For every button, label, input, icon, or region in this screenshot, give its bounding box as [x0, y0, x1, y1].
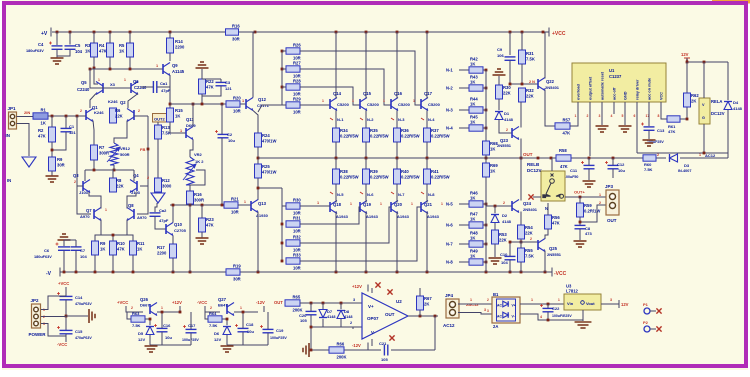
svg-text:2N5551: 2N5551: [497, 143, 512, 148]
junction bottom rail x=397: [396, 271, 399, 274]
junction bus R49: [485, 261, 488, 264]
junction bottom rail x=258: [257, 271, 260, 274]
wire R59 bottom: [579, 217, 581, 225]
capacitor C19: [260, 325, 274, 333]
svg-text:C18: C18: [246, 322, 254, 327]
resistor R25: [255, 164, 277, 178]
svg-text:47K: 47K: [206, 223, 214, 228]
resistor R56: [545, 215, 561, 229]
ground U1 pin3: [596, 126, 609, 132]
wire R3 top: [93, 32, 95, 43]
svg-text:V+: V+: [368, 304, 374, 309]
svg-text:R25: R25: [262, 164, 270, 169]
wire 12V rail: [687, 61, 728, 63]
svg-text:12V: 12V: [138, 337, 145, 342]
svg-text:Q9: Q9: [172, 63, 178, 68]
connector JP4: [446, 299, 459, 318]
wire R63 right: [145, 319, 150, 325]
wire D8 top: [340, 303, 342, 309]
wire opamp input line: [300, 302, 362, 304]
svg-text:VR2: VR2: [194, 152, 203, 157]
svg-text:R2: R2: [38, 128, 44, 133]
junction C17 top: [179, 311, 182, 314]
transistor Q20 (A1943): [391, 201, 398, 214]
junction OUT rail x=427: [426, 157, 429, 160]
wire source rail y=170: [85, 169, 134, 171]
bridge rectifier B1 body: [492, 297, 520, 323]
wire C16 bottom: [161, 332, 163, 345]
resistor R26: [286, 42, 301, 60]
transistor Q25 (2N5551): [538, 239, 545, 252]
wire C1 top: [65, 116, 67, 128]
wire R62 top: [686, 62, 688, 93]
wire D4 column top: [727, 62, 729, 100]
wire driver line y104: [170, 103, 226, 105]
resistor R60: [643, 155, 656, 161]
wire Ca1 left lead: [141, 86, 153, 88]
resistor R31b: [519, 50, 535, 64]
resistor R61: [667, 116, 680, 122]
svg-text:1K: 1K: [490, 169, 495, 174]
svg-text:R12: R12: [162, 178, 170, 183]
wire C5 to ground bus: [57, 50, 70, 57]
svg-text:R54: R54: [525, 225, 533, 230]
capacitor C20: [306, 311, 317, 314]
wire Q10 collector up: [172, 205, 174, 223]
wire AC line upper: [637, 152, 728, 154]
svg-text:1K: 1K: [41, 121, 46, 126]
svg-text:DC12V: DC12V: [711, 111, 725, 116]
svg-text:C12: C12: [617, 162, 625, 167]
junction top rail x=110: [109, 31, 112, 34]
svg-text:C11: C11: [570, 168, 578, 173]
svg-text:7.5K: 7.5K: [525, 254, 534, 259]
svg-text:2IN: 2IN: [24, 110, 30, 115]
svg-text:3: 3: [487, 309, 489, 313]
wire R47 row: [459, 224, 469, 226]
junction OUT rail x=613: [612, 157, 615, 160]
svg-text:Q2: Q2: [120, 100, 126, 105]
junction bottom rail x=64: [63, 271, 66, 274]
wire JP2 pin3: [41, 324, 66, 337]
wire R32b to Q23: [520, 102, 522, 128]
junction Q27 base/D6: [226, 318, 229, 321]
capacitor C1: [61, 128, 72, 131]
svg-text:Q16: Q16: [394, 91, 403, 96]
svg-text:1K: 1K: [175, 114, 180, 119]
svg-text:2200: 2200: [157, 251, 167, 256]
wire R4 to base rail: [109, 57, 111, 69]
resistor R5: [119, 43, 134, 57]
svg-text:1: 1: [470, 298, 472, 302]
resistor R12: [155, 178, 172, 192]
svg-text:1K: 1K: [490, 147, 495, 152]
wire JP2 pin2: [41, 316, 66, 318]
svg-text:+VCC: +VCC: [58, 281, 69, 286]
wire U1 pin3 to ground: [601, 114, 603, 125]
ground input triangle: [22, 157, 36, 167]
svg-text:OUT+: OUT+: [574, 190, 585, 195]
svg-text:2: 2: [587, 114, 589, 118]
port OUT2: [153, 114, 169, 123]
svg-text:-V: -V: [46, 271, 52, 277]
wire Q20 collector down: [396, 212, 398, 273]
capacitor C5: [65, 46, 76, 49]
IC U3 L7812 body: [564, 294, 601, 310]
wire R9b bottom: [94, 255, 96, 272]
svg-text:47K: 47K: [206, 85, 214, 90]
wire Q17 collector up: [426, 32, 428, 99]
svg-text:Ca2: Ca2: [159, 208, 167, 213]
svg-text:-VCC: -VCC: [554, 271, 567, 277]
svg-text:4148: 4148: [344, 315, 352, 319]
junction VR1/y170: [113, 169, 116, 172]
svg-text:JP3: JP3: [605, 184, 614, 189]
svg-text:100uF25V: 100uF25V: [270, 336, 287, 340]
svg-text:Q18: Q18: [333, 202, 342, 207]
wire R48 row: [459, 243, 469, 245]
svg-text:R41: R41: [431, 169, 439, 174]
svg-text:470uF63V: 470uF63V: [75, 302, 92, 306]
svg-text:R6: R6: [115, 108, 121, 113]
emitter mark N-3: [391, 118, 394, 120]
svg-text:AC: AC: [497, 304, 502, 308]
svg-text:1K: 1K: [470, 62, 475, 67]
svg-text:C2240: C2240: [77, 87, 90, 92]
wire C20 bottom: [310, 315, 312, 350]
resistor R4: [99, 43, 114, 57]
wire C22 bottom: [547, 312, 549, 320]
transistor Q15 (C5200): [360, 98, 367, 111]
wire OUT2 to column: [168, 117, 172, 119]
wire Q25 emitter down: [544, 251, 546, 273]
wire R59 top: [579, 197, 581, 203]
svg-text:+VCC: +VCC: [552, 31, 566, 37]
svg-text:OUT: OUT: [274, 300, 283, 305]
junction D7 tap: [322, 302, 325, 305]
svg-text:2: 2: [503, 201, 505, 205]
resistor R38: [333, 169, 359, 184]
wire Q4 top: [133, 170, 135, 181]
svg-text:Vin: Vin: [567, 301, 574, 306]
wire R67 bottom: [419, 310, 421, 316]
wire R64 right: [222, 319, 227, 325]
wire Q1 gate: [77, 115, 86, 117]
transistor Q16 (C5200): [391, 98, 398, 111]
wire Q24 base row: [486, 205, 512, 207]
wire R46 to bus: [483, 203, 486, 205]
wire C2 top: [221, 104, 223, 134]
svg-text:C22: C22: [552, 306, 560, 311]
wire Q20 emitter link: [396, 184, 398, 203]
wire Q7 emitter: [95, 220, 101, 242]
svg-text:10u: 10u: [165, 335, 172, 340]
svg-text:121: 121: [69, 130, 76, 135]
svg-text:12V: 12V: [621, 302, 629, 307]
diode D3 (IN-4007): [670, 154, 678, 162]
wire U1 pin5 stub: [624, 102, 626, 114]
svg-text:Q10: Q10: [174, 222, 183, 227]
wire Q11 emitter down: [190, 140, 193, 158]
wire RELA top: [703, 62, 705, 98]
wire R25/Q13 node to bottom bus: [258, 187, 282, 189]
wire Q26 out: [157, 311, 180, 313]
svg-text:1K: 1K: [470, 217, 475, 222]
svg-text:3: 3: [484, 308, 486, 312]
svg-text:C7: C7: [80, 248, 86, 253]
svg-text:180uF63V: 180uF63V: [34, 255, 52, 259]
svg-text:Q20: Q20: [394, 202, 403, 207]
junction bottom rail x=113: [112, 271, 115, 274]
transistor Q27 (B647): [227, 303, 234, 316]
svg-text:1: 1: [240, 306, 242, 310]
svg-text:C2: C2: [227, 132, 233, 137]
wire R22 bottom: [202, 86, 221, 96]
svg-text:IN-4007: IN-4007: [678, 169, 692, 173]
svg-text:X3: X3: [110, 82, 116, 87]
junction top rail x=255: [254, 31, 257, 34]
svg-text:automatic reset: automatic reset: [601, 71, 605, 100]
wire R8 top: [112, 170, 114, 178]
transistor Q21 (A1943): [421, 201, 428, 214]
svg-text:12V: 12V: [214, 337, 221, 342]
svg-text:R8: R8: [116, 178, 122, 183]
resistor R36: [394, 128, 420, 142]
wire Q18 emitter up: [335, 158, 337, 169]
svg-text:0.22R/5W: 0.22R/5W: [401, 175, 420, 180]
wire left riser to Q5 base area: [90, 69, 103, 88]
diode D2 (4148): [491, 215, 499, 223]
resistor R13: [155, 125, 171, 139]
wire R53 to ground: [494, 244, 496, 257]
svg-text:4148: 4148: [504, 117, 514, 122]
svg-text:acc on mute: acc on mute: [648, 78, 652, 100]
svg-text:R29: R29: [293, 96, 301, 101]
wire R43 to bus: [483, 87, 486, 89]
svg-text:R67: R67: [424, 296, 432, 301]
svg-text:R22: R22: [206, 79, 214, 84]
svg-text:C1237: C1237: [609, 74, 622, 79]
junction OUT rail x=486: [485, 157, 488, 160]
junction R1/R2: [51, 115, 54, 118]
svg-text:Q6: Q6: [133, 79, 139, 84]
wire R37 to OUT rail: [426, 142, 428, 158]
svg-text:7.5K: 7.5K: [526, 57, 535, 62]
resistor R55: [518, 248, 534, 262]
transistor Q3 (J103): [83, 180, 90, 193]
junction R7/y170: [93, 169, 96, 172]
svg-text:D5: D5: [138, 331, 144, 336]
junction bottom rail x=366: [365, 271, 368, 274]
svg-text:R9: R9: [100, 241, 106, 246]
svg-text:OUT: OUT: [607, 218, 617, 223]
wire R25 to Q13: [257, 178, 259, 200]
svg-text:47K: 47K: [117, 247, 125, 252]
svg-text:0.2R/1W: 0.2R/1W: [584, 209, 600, 214]
junction top rail x=170: [169, 31, 172, 34]
wire C6 bottom: [63, 251, 65, 273]
junction R16b y205: [189, 204, 192, 207]
svg-text:R4: R4: [99, 43, 105, 48]
wire Q18 collector down: [335, 212, 337, 273]
capacitor C17: [183, 325, 197, 333]
wire VAS line y205: [170, 204, 224, 206]
svg-text:200K: 200K: [293, 308, 303, 313]
wire C4 stem: [56, 32, 58, 45]
svg-text:22K: 22K: [115, 114, 123, 119]
wire R47 to bus: [483, 224, 486, 226]
wire N bus mid: [485, 155, 487, 163]
svg-text:A970: A970: [80, 214, 90, 219]
svg-text:R69: R69: [490, 163, 498, 168]
svg-text:R57: R57: [563, 117, 571, 122]
junction y205 Q10: [172, 204, 175, 207]
svg-text:acc-off: acc-off: [613, 87, 617, 100]
wire +12V stem: [179, 306, 181, 312]
no-connect X opamp top 1: [375, 282, 380, 287]
svg-text:R16: R16: [232, 23, 240, 28]
junction 12V/RELA: [703, 61, 706, 64]
svg-text:2: 2: [487, 298, 489, 302]
wire Q25 base row: [510, 241, 538, 243]
wire U2 V+ pin: [371, 288, 373, 293]
svg-text:470uF63V: 470uF63V: [75, 336, 92, 340]
junction C16 top: [161, 311, 164, 314]
orange strip top right: [712, 0, 750, 4]
svg-text:7.5K: 7.5K: [209, 323, 218, 328]
ground Q27 area: [221, 346, 234, 352]
svg-text:4148: 4148: [327, 315, 335, 319]
wire C13 to ground: [648, 131, 650, 140]
wire D7 top: [322, 303, 324, 309]
emitter mark N-7: [391, 192, 394, 194]
svg-text:-VCC: -VCC: [197, 300, 207, 305]
svg-text:R59: R59: [584, 203, 592, 208]
transistor Q5: [96, 82, 103, 95]
resistor R32b: [519, 88, 535, 102]
wire R2 to R9: [51, 142, 53, 157]
svg-text:C10: C10: [500, 252, 508, 257]
junction R2/R9/C1: [51, 149, 54, 152]
wire C22 top: [547, 304, 549, 308]
svg-text:12V: 12V: [681, 52, 689, 57]
svg-text:+V: +V: [41, 31, 48, 37]
resistor R19: [226, 263, 241, 281]
svg-text:106: 106: [497, 53, 504, 58]
capacitor C6: [56, 243, 71, 251]
svg-text:-12V: -12V: [256, 300, 265, 305]
junction bottom rail x=427: [426, 271, 429, 274]
wire C17 top: [190, 312, 192, 329]
svg-text:R5: R5: [119, 43, 125, 48]
wire Q15 collector up: [365, 32, 367, 99]
wire R32 to Q20 base: [300, 207, 391, 243]
svg-text:1K: 1K: [470, 120, 475, 125]
svg-text:300R: 300R: [194, 198, 204, 203]
wire Q21 emitter link: [426, 184, 428, 203]
ground below R23: [196, 238, 209, 244]
wire C6-C7 gnd link: [64, 239, 76, 241]
ground below C4: [51, 58, 64, 64]
svg-text:R56: R56: [552, 215, 560, 220]
wire X to RELB: [533, 196, 541, 198]
wire D8 bottom: [340, 319, 342, 327]
svg-text:Q17: Q17: [424, 91, 433, 96]
svg-text:1: 1: [699, 153, 701, 157]
svg-text:B647: B647: [218, 303, 228, 308]
wire B1 out- path: [520, 314, 583, 320]
svg-text:2: 2: [350, 321, 352, 325]
wire +V top rail left: [52, 31, 225, 33]
wire R3 to Q5: [94, 57, 98, 84]
svg-text:C4: C4: [38, 42, 44, 47]
connector JP1: [9, 112, 17, 129]
wire Q19 collector down: [365, 212, 367, 273]
svg-text:10u: 10u: [228, 138, 235, 143]
svg-text:R53: R53: [499, 232, 507, 237]
wire C19 bottom: [267, 333, 269, 345]
pin mark 12V: [684, 58, 690, 60]
svg-text:104: 104: [75, 49, 83, 54]
svg-text:4148: 4148: [733, 106, 743, 111]
svg-text:1: 1: [156, 64, 158, 68]
svg-text:GND: GND: [624, 91, 628, 100]
junction R22/driver line: [201, 103, 204, 106]
svg-text:R17: R17: [157, 245, 165, 250]
wire U1 pin6 stub: [636, 102, 638, 114]
wire Q12 emitter down: [253, 111, 258, 134]
wire Q21 collector down: [426, 212, 428, 273]
svg-text:R28: R28: [293, 78, 301, 83]
svg-text:AC12: AC12: [705, 153, 716, 158]
svg-text:2K: 2K: [424, 302, 429, 307]
svg-text:1K: 1K: [137, 247, 142, 252]
svg-text:2 N: 2 N: [529, 80, 535, 84]
wire R17 bottom: [172, 258, 174, 272]
diode D8 (4148): [337, 311, 345, 319]
resistor R10: [110, 241, 126, 255]
emitter mark N-8: [421, 192, 424, 194]
wire R14 to Q9: [169, 53, 171, 61]
svg-text:R24: R24: [262, 133, 270, 138]
wire mid node to ground: [66, 315, 88, 317]
svg-text:IN: IN: [6, 133, 11, 138]
wire VR1 bottom: [113, 165, 115, 170]
svg-text:1: 1: [317, 201, 319, 205]
svg-text:22K: 22K: [526, 94, 534, 99]
svg-text:output offset: output offset: [589, 76, 593, 100]
svg-text:6: 6: [634, 114, 636, 118]
svg-text:473: 473: [585, 231, 592, 236]
capacitor C11: [581, 161, 595, 169]
svg-text:D1: D1: [504, 111, 510, 116]
resistor R69: [483, 163, 499, 177]
transistor Q7 (A970): [94, 208, 101, 221]
diode B1-b: [503, 312, 508, 318]
resistor R65: [285, 294, 303, 312]
transistor Q8 (A970): [127, 208, 134, 221]
wire C10 bottom: [509, 260, 511, 272]
svg-text:D667: D667: [140, 303, 150, 308]
svg-text:D3: D3: [684, 163, 690, 168]
wire Q22 collector down: [545, 90, 555, 127]
resistor R49: [469, 259, 483, 265]
svg-text:104: 104: [80, 254, 87, 259]
wire R13 to R12: [157, 139, 159, 178]
svg-text:500R: 500R: [120, 152, 130, 157]
wire D5 to ground: [149, 335, 151, 345]
junction bottom rail x=545: [544, 271, 547, 274]
